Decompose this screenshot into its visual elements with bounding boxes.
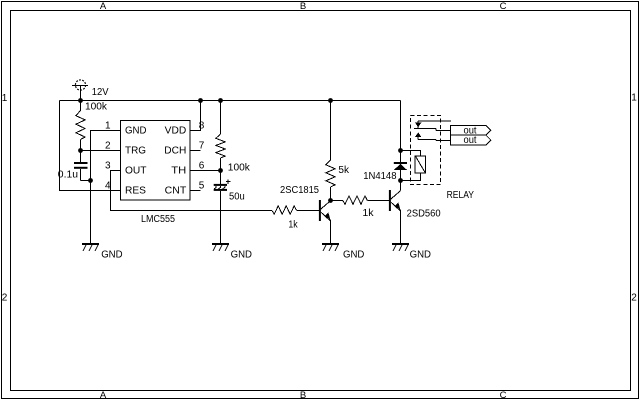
wire: TRG to pin 2 xyxy=(81,150,121,152)
svg-text:RES: RES xyxy=(125,185,146,196)
wire: OUT pin3 down and right xyxy=(111,171,273,211)
capacitor C2 50u xyxy=(214,171,231,245)
resistor R2 100k xyxy=(216,101,225,171)
svg-text:50u: 50u xyxy=(229,192,245,203)
node: junction diode/coil bottom xyxy=(398,178,403,183)
svg-text:GND: GND xyxy=(101,250,122,261)
net flag out 2 xyxy=(451,135,491,146)
svg-text:2: 2 xyxy=(105,140,111,151)
svg-text:7: 7 xyxy=(199,140,205,151)
svg-text:2: 2 xyxy=(631,293,637,304)
capacitor C1 0.1u xyxy=(74,151,88,181)
ground GND1 xyxy=(82,243,99,251)
svg-text:1k: 1k xyxy=(288,219,298,230)
svg-text:A: A xyxy=(100,390,107,400)
svg-text:1: 1 xyxy=(631,92,637,103)
svg-text:4: 4 xyxy=(105,181,111,192)
svg-text:100k: 100k xyxy=(228,163,251,174)
ground GND3 xyxy=(322,243,339,251)
wire: rail corner down at x=400 xyxy=(400,101,402,191)
svg-text:OUT: OUT xyxy=(125,165,147,176)
svg-text:1: 1 xyxy=(105,120,111,131)
svg-text:1: 1 xyxy=(2,93,8,104)
relay contact NO line xyxy=(415,132,451,140)
net flag out 1 xyxy=(451,125,491,136)
relay contact NC line xyxy=(415,121,451,129)
svg-text:VDD: VDD xyxy=(165,125,187,136)
svg-text:8: 8 xyxy=(199,120,205,131)
transistor Q1 2SC1815 xyxy=(319,200,331,244)
relay K1 coil xyxy=(415,156,426,173)
svg-text:TH: TH xyxy=(171,165,186,176)
svg-text:CNT: CNT xyxy=(165,185,187,196)
svg-text:3: 3 xyxy=(105,161,111,172)
wire: Q1 collector to R5 xyxy=(331,200,343,202)
svg-text:1k: 1k xyxy=(362,208,374,219)
op-amp U1 LMC555 box xyxy=(121,121,191,201)
relay contact pole line xyxy=(414,129,451,131)
node: junction R3 on rail xyxy=(328,98,333,103)
svg-text:1N4148: 1N4148 xyxy=(363,171,397,182)
svg-text:B: B xyxy=(300,390,306,400)
svg-text:GND: GND xyxy=(410,250,431,261)
diode D1 1N4148 xyxy=(394,162,407,170)
svg-text:GND: GND xyxy=(343,250,364,261)
ground GND4 xyxy=(392,243,409,251)
node: junction 12V on rail xyxy=(78,98,83,103)
wire: left rail down to RES xyxy=(60,101,121,191)
svg-text:C: C xyxy=(500,1,507,12)
ground GND2 xyxy=(212,243,229,251)
svg-text:0.1u: 0.1u xyxy=(58,169,78,180)
wire: pin7 DCH stub xyxy=(190,150,201,152)
wire: coil bottom branch xyxy=(401,173,421,181)
wire: pin1 GND down to ground xyxy=(91,131,121,245)
svg-text:5k: 5k xyxy=(338,165,350,176)
node: junction diode/coil top xyxy=(398,148,403,153)
svg-text:5: 5 xyxy=(199,181,205,192)
svg-text:DCH: DCH xyxy=(164,145,186,156)
resistor R4 1k horizontal xyxy=(272,206,320,214)
svg-text:TRG: TRG xyxy=(125,145,146,156)
svg-text:LMC555: LMC555 xyxy=(141,214,175,225)
power symbol 12V xyxy=(72,80,88,101)
relay K1 dashed outline xyxy=(411,116,441,185)
node: junction C1/GND line xyxy=(88,178,93,183)
svg-text:C: C xyxy=(500,390,507,400)
svg-text:B: B xyxy=(300,1,306,12)
svg-text:GND: GND xyxy=(231,250,252,261)
wire: coil top branch xyxy=(401,151,421,156)
svg-text:12V: 12V xyxy=(92,87,109,98)
svg-text:2SC1815: 2SC1815 xyxy=(280,185,319,196)
node: junction Q1 collector xyxy=(328,198,333,203)
node: junction R2 on rail xyxy=(218,98,223,103)
resistor R1 100k xyxy=(76,101,85,151)
wire: pin5 CNT stub xyxy=(190,190,201,192)
wire: +12V rail y=100 xyxy=(60,100,401,102)
resistor R3 5k xyxy=(326,101,335,201)
wire: pin6 TH to R2/C2 xyxy=(190,170,221,172)
wire: pin8 VDD to rail xyxy=(190,101,201,131)
transistor Q2 2SD560 xyxy=(389,190,401,244)
wire: C1 bottom to GND line xyxy=(81,180,91,182)
svg-text:2: 2 xyxy=(2,293,8,304)
svg-text:100k: 100k xyxy=(85,101,108,112)
node: junction VDD riser on rail xyxy=(198,98,203,103)
svg-text:2SD560: 2SD560 xyxy=(407,209,441,220)
svg-text:GND: GND xyxy=(125,125,147,136)
svg-text:A: A xyxy=(100,1,107,12)
svg-text:out: out xyxy=(464,135,477,146)
node: junction R1/C1/TRG xyxy=(78,148,83,153)
svg-text:6: 6 xyxy=(199,161,205,172)
node: junction TH/R2/C2 xyxy=(218,168,223,173)
svg-text:RELAY: RELAY xyxy=(447,190,475,201)
resistor R5 1k horizontal xyxy=(343,196,390,204)
